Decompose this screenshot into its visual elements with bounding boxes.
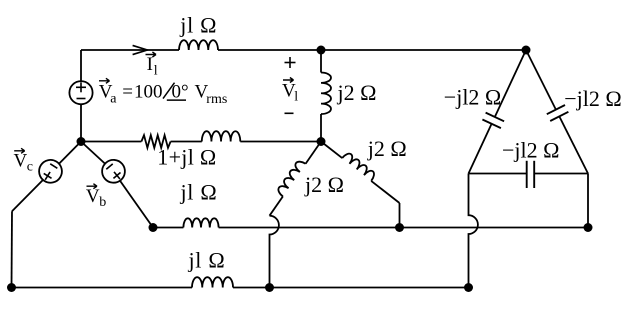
svg-text:rms: rms: [206, 92, 227, 107]
svg-text:100: 100: [134, 82, 163, 103]
svg-text:=: =: [122, 82, 133, 103]
svg-text:−jl2 Ω: −jl2 Ω: [444, 84, 501, 109]
svg-text:1+jl Ω: 1+jl Ω: [157, 145, 216, 170]
svg-text:j2 Ω: j2 Ω: [304, 172, 344, 197]
svg-text:l: l: [154, 63, 158, 78]
svg-text:c: c: [27, 159, 33, 174]
svg-text:jl Ω: jl Ω: [180, 180, 218, 205]
svg-text:−jl2 Ω: −jl2 Ω: [564, 86, 621, 111]
svg-text:j2 Ω: j2 Ω: [367, 136, 407, 161]
svg-text:V: V: [86, 186, 100, 207]
svg-text:V: V: [14, 151, 28, 172]
svg-text:jl Ω: jl Ω: [188, 248, 226, 273]
svg-text:0°: 0°: [172, 82, 189, 103]
svg-text:b: b: [99, 195, 106, 210]
svg-text:a: a: [110, 91, 117, 106]
svg-text:I: I: [147, 54, 153, 75]
svg-text:j2 Ω: j2 Ω: [337, 80, 377, 105]
svg-text:l: l: [294, 90, 298, 105]
svg-text:jl Ω: jl Ω: [179, 13, 217, 38]
svg-text:−jl2 Ω: −jl2 Ω: [502, 138, 559, 163]
